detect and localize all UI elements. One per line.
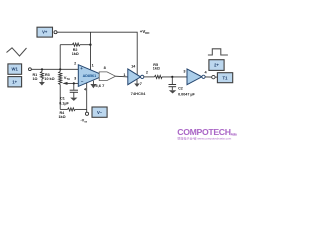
ground pins 5,6,7 of comparator <box>90 81 105 89</box>
box V- <box>92 107 107 117</box>
svg-text:T1: T1 <box>223 75 229 80</box>
output net arrow <box>99 72 115 81</box>
svg-text:1+: 1+ <box>12 79 17 84</box>
V- terminal circle <box>85 112 88 115</box>
input terminal circle <box>29 68 32 71</box>
resistor R3 10k (pot body) <box>44 69 61 109</box>
wire to inverter 1 <box>116 75 129 78</box>
svg-text:V−: V− <box>97 110 103 115</box>
svg-text:1: 1 <box>123 73 125 77</box>
box W1 <box>8 64 22 74</box>
svg-text:C2: C2 <box>178 87 183 91</box>
box 2+ <box>209 60 224 71</box>
wire to T1 box <box>215 76 217 78</box>
junction dot C1 branch <box>73 82 75 84</box>
box T1 <box>217 73 232 83</box>
svg-text:3: 3 <box>183 70 185 74</box>
svg-text:0.0047 µF: 0.0047 µF <box>178 93 195 97</box>
svg-text:2: 2 <box>146 70 148 74</box>
resistor R2 <box>60 43 90 69</box>
triangle wave glyph <box>7 48 27 56</box>
svg-text:1kΩ: 1kΩ <box>72 52 79 56</box>
svg-text:74HC04: 74HC04 <box>131 91 146 96</box>
svg-text:AD8561: AD8561 <box>83 74 97 78</box>
svg-text:C1: C1 <box>60 97 65 101</box>
svg-text:2: 2 <box>74 62 76 66</box>
junction dot R2 to supply column <box>89 44 91 46</box>
COMPOTECH Asia logo <box>177 127 237 141</box>
svg-text:1Ω: 1Ω <box>33 77 38 81</box>
svg-text:联接电子业•镦 www.compotechasia.com: 联接电子业•镦 www.compotechasia.com <box>178 136 232 141</box>
V+ rail wire <box>57 32 137 75</box>
box V+ <box>37 27 53 37</box>
svg-text:1: 1 <box>92 64 94 68</box>
capacitor C2 <box>169 77 196 97</box>
V+ terminal circle <box>54 31 57 34</box>
svg-text:8: 8 <box>104 66 106 70</box>
svg-text:1kΩ: 1kΩ <box>59 115 66 119</box>
junction node R2/R3 column on +IN wire <box>59 68 61 70</box>
ground pin 7 inverter <box>134 79 142 87</box>
capacitor C1 <box>59 83 78 105</box>
ground below C1 <box>70 98 77 101</box>
svg-text:V+: V+ <box>42 30 48 35</box>
resistor R1 <box>33 69 44 82</box>
junction dot C2 <box>171 76 173 78</box>
svg-text:−: − <box>81 79 84 84</box>
inverter U2A 74HC04 <box>128 69 146 96</box>
resistor R5 <box>144 63 187 79</box>
svg-text:2+: 2+ <box>214 63 219 68</box>
junction node R1 <box>41 68 43 70</box>
svg-text:W1: W1 <box>12 67 19 72</box>
svg-text:COMPOTECHAsia: COMPOTECHAsia <box>177 127 237 137</box>
svg-text:5,6 7: 5,6 7 <box>95 83 105 88</box>
svg-text:0.1µF: 0.1µF <box>59 101 69 105</box>
ground below R1 <box>39 82 45 86</box>
comparator U1 AD8561 <box>78 65 104 87</box>
output terminal circle <box>212 75 215 78</box>
resistor R4 <box>59 108 87 119</box>
box 1+ <box>8 77 22 87</box>
V_TH wiper arrow into -IN wire <box>62 75 78 85</box>
wire input node to comparator +IN pin 2 <box>31 68 78 70</box>
svg-text:1kΩ: 1kΩ <box>153 67 160 71</box>
svg-text:10 kΩ: 10 kΩ <box>44 77 54 81</box>
svg-text:7: 7 <box>140 82 142 86</box>
ground below C2 <box>169 90 176 93</box>
wire bubble to output terminal <box>205 76 212 78</box>
svg-text:3: 3 <box>74 76 76 80</box>
pin 4 wire to V- <box>86 83 88 112</box>
comparator supply wire pin 1 <box>90 32 92 70</box>
svg-text:+: + <box>80 66 83 71</box>
square wave glyph <box>208 49 228 55</box>
inverter U2B 74HC04 second <box>187 69 205 85</box>
